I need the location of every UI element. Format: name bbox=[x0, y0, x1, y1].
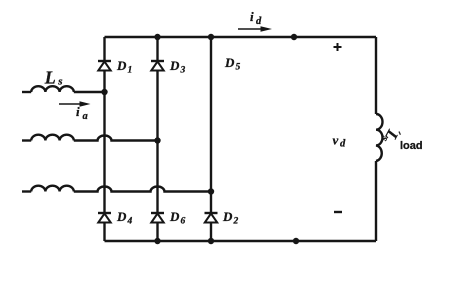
node bottom bus measurement dot bbox=[293, 238, 299, 244]
wire bottom bus bbox=[105, 240, 377, 242]
diode D2 bbox=[205, 213, 218, 223]
node top bus measurement dot bbox=[291, 34, 297, 40]
svg-text:L: L bbox=[44, 68, 56, 88]
svg-text:i: i bbox=[250, 9, 254, 24]
wire column 2 upper bbox=[156, 37, 158, 60]
diode D3 bbox=[151, 61, 164, 71]
wire column 1 upper bbox=[103, 37, 105, 60]
node top bus / column 3 bbox=[208, 34, 214, 40]
svg-text:d: d bbox=[340, 139, 346, 150]
diode D1 bbox=[98, 61, 111, 71]
svg-text:4: 4 bbox=[127, 217, 133, 227]
arrow i_d bbox=[238, 26, 272, 32]
label - polarity bbox=[334, 211, 342, 213]
wire top bus bbox=[105, 36, 377, 38]
stray tick mark bbox=[399, 132, 400, 135]
node phase a / column 1 bbox=[101, 89, 107, 95]
label + polarity bbox=[334, 43, 342, 51]
wire phase c with hops over columns 1 and 2 bbox=[74, 187, 211, 192]
node phase b / column 2 bbox=[154, 137, 160, 143]
wire column 2 lower bbox=[156, 223, 158, 242]
svg-text:D: D bbox=[169, 209, 180, 224]
svg-text:load: load bbox=[400, 140, 423, 152]
inductor Ls phase c bbox=[31, 186, 74, 192]
wire phase c left bbox=[22, 190, 31, 192]
inductor Ls phase b bbox=[31, 135, 74, 141]
wire phase b left bbox=[22, 139, 31, 141]
wire right side lower bbox=[375, 161, 377, 241]
wire phase b with hop over column 1 bbox=[74, 136, 158, 141]
svg-text:6: 6 bbox=[181, 217, 186, 227]
wire column 3 lower bbox=[210, 223, 212, 242]
svg-text:i: i bbox=[76, 104, 80, 119]
svg-text:D: D bbox=[222, 209, 233, 224]
inductor L_load (right side, 3 bumps) bbox=[376, 114, 383, 161]
wire column 2 middle bbox=[156, 71, 158, 213]
inductor Ls phase a bbox=[31, 86, 74, 92]
wire right side upper bbox=[375, 37, 377, 114]
wire phase a left bbox=[22, 91, 31, 93]
svg-text:d: d bbox=[256, 16, 262, 27]
arrow i_a bbox=[59, 101, 91, 107]
svg-text:D: D bbox=[224, 55, 235, 70]
svg-text:a: a bbox=[83, 111, 88, 122]
svg-text:v: v bbox=[333, 133, 339, 148]
svg-text:5: 5 bbox=[236, 63, 241, 73]
svg-text:D: D bbox=[169, 58, 180, 73]
label L_s rotated (load inductor) bbox=[379, 125, 401, 146]
wire column 3 (no D5 symbol) bbox=[210, 37, 212, 212]
diode D4 bbox=[98, 213, 111, 223]
wire column 1 middle bbox=[103, 71, 105, 213]
svg-text:L: L bbox=[381, 126, 401, 144]
svg-text:D: D bbox=[116, 209, 127, 224]
svg-text:D: D bbox=[116, 58, 127, 73]
diode D6 bbox=[151, 213, 164, 223]
node bottom bus / column 3 bbox=[208, 238, 214, 244]
svg-text:2: 2 bbox=[233, 217, 239, 227]
svg-text:1: 1 bbox=[128, 66, 133, 76]
node top bus / column 2 bbox=[154, 34, 160, 40]
node phase c / column 3 bbox=[208, 188, 214, 194]
wire column 1 lower bbox=[103, 223, 105, 242]
node bottom bus / column 2 bbox=[154, 238, 160, 244]
wire phase a right bbox=[74, 91, 105, 93]
svg-text:s: s bbox=[57, 76, 62, 88]
svg-text:3: 3 bbox=[180, 66, 186, 76]
